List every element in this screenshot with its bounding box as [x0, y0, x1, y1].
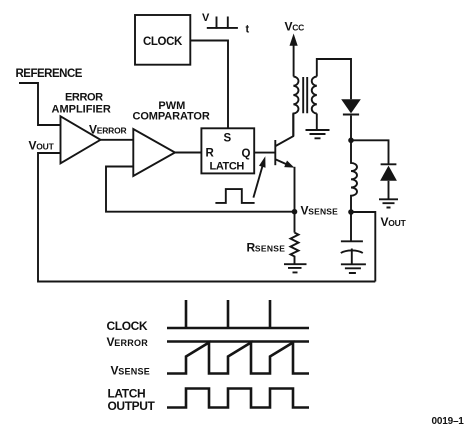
svg-text:VERROR: VERROR [89, 123, 126, 137]
svg-text:Q: Q [242, 148, 251, 160]
diode CR2 catch [380, 164, 397, 199]
latch drive pulse glyph [215, 189, 254, 203]
wire to diode CR2 [351, 140, 389, 164]
wire VOUT node down [351, 212, 375, 282]
ground secondary [306, 114, 330, 139]
waveform latch output [167, 389, 309, 408]
svg-text:ERROR: ERROR [65, 92, 103, 104]
wire current-sense feedback to comparator [106, 167, 295, 212]
label VOUT left [29, 139, 55, 153]
svg-text:t: t [246, 24, 250, 36]
capacitor C1 [341, 212, 363, 264]
latch U3 [201, 128, 254, 173]
wire reference input [19, 83, 61, 125]
svg-text:R: R [206, 148, 215, 160]
svg-text:VSENSE: VSENSE [111, 364, 150, 378]
resistor RSENSE [247, 233, 299, 264]
label VERROR waveform [107, 335, 149, 349]
label VCC [285, 20, 305, 34]
transformer T1 secondary [312, 77, 317, 114]
svg-text:OUTPUT: OUTPUT [108, 399, 156, 413]
node VSENSE junction [292, 209, 298, 215]
svg-text:REFERENCE: REFERENCE [16, 68, 83, 80]
transformer T1 core [303, 77, 307, 113]
label LATCH OUTPUT waveform [108, 387, 156, 413]
svg-text:COMPARATOR: COMPARATOR [133, 110, 210, 122]
wire VOUT feedback bottom [38, 153, 375, 282]
label VOUT right [381, 215, 407, 229]
clock box [135, 15, 190, 65]
label VSENSE waveform [111, 364, 150, 378]
waveform vsense ramps [167, 343, 309, 374]
wire clock to latch S [190, 41, 228, 129]
wire comparator output to latch R [175, 152, 201, 154]
waveform verror level [167, 340, 309, 343]
svg-text:VCC: VCC [285, 20, 305, 34]
figure number 0019-1 [432, 416, 465, 427]
svg-text:VOUT: VOUT [381, 215, 407, 229]
wire error amp output [101, 139, 134, 141]
transformer T1 primary [293, 77, 298, 137]
svg-text:VERROR: VERROR [107, 335, 149, 349]
VCC arrow and wire [290, 34, 298, 77]
ground capacitor C1 [341, 264, 366, 273]
ground diode CR2 [379, 199, 398, 207]
svg-text:S: S [224, 133, 232, 145]
diode CR1 rectifier [341, 99, 361, 140]
svg-text:0019–1: 0019–1 [432, 416, 465, 427]
svg-text:CLOCK: CLOCK [107, 319, 148, 333]
svg-text:CLOCK: CLOCK [143, 36, 183, 48]
svg-text:RSENSE: RSENSE [247, 241, 286, 255]
op-amp U1 error amplifier [52, 92, 111, 164]
waveform clock [167, 300, 309, 328]
svg-text:AMPLIFIER: AMPLIFIER [52, 104, 111, 116]
svg-text:VOUT: VOUT [29, 139, 55, 153]
node switch output junction [348, 138, 354, 144]
label CLOCK waveform [107, 319, 148, 333]
ground RSENSE [284, 264, 307, 272]
svg-text:VSENSE: VSENSE [301, 203, 339, 217]
inductor L1 [351, 140, 357, 211]
label REFERENCE [16, 68, 83, 80]
svg-text:LATCH: LATCH [210, 160, 245, 172]
transistor Q1 [275, 114, 294, 168]
wire latch Q to transistor base [254, 152, 275, 154]
node VOUT junction [348, 209, 354, 215]
wire emitter to RSENSE [294, 167, 296, 233]
clock V-t waveform glyph [202, 12, 250, 36]
annotation arrow [253, 156, 265, 197]
wire secondary top to diode CR1 [317, 59, 351, 99]
label VSENSE [301, 203, 339, 217]
label VERROR [89, 123, 126, 137]
svg-text:V: V [202, 12, 210, 24]
op-amp U2 PWM comparator [133, 100, 210, 176]
